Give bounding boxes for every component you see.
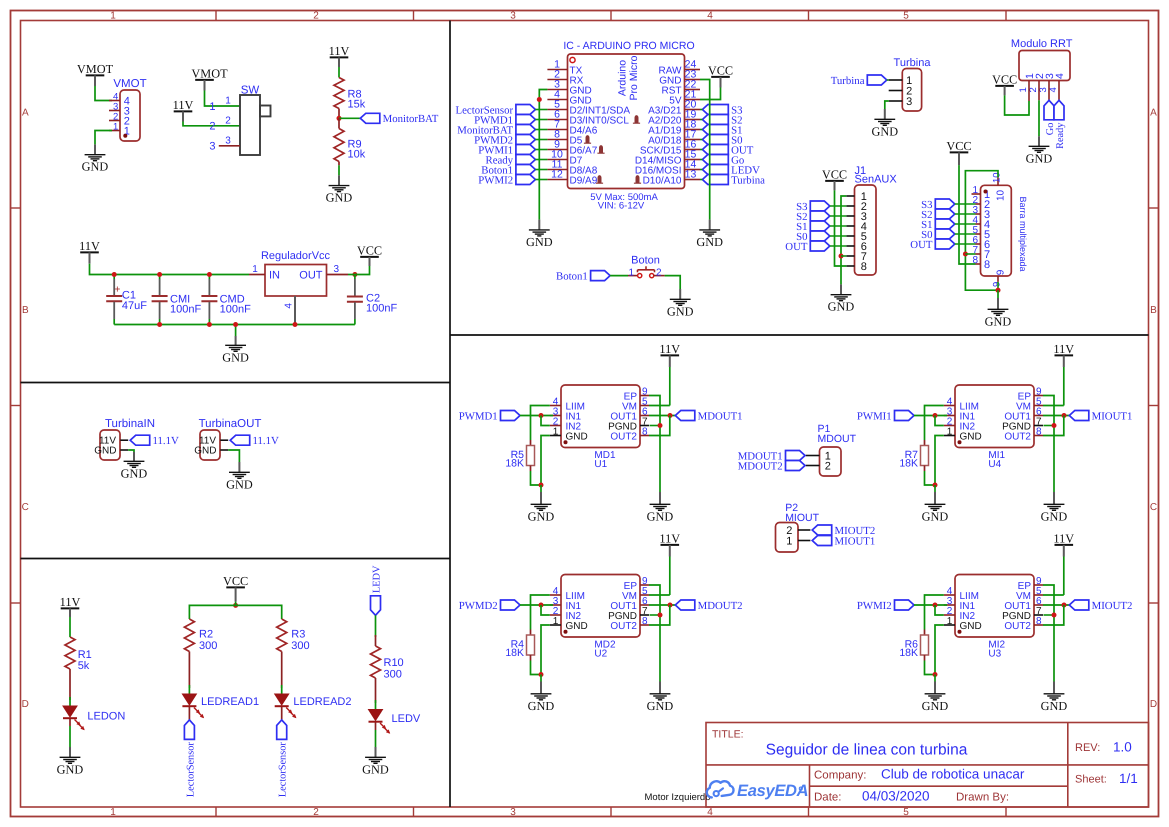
LED LEDON	[63, 706, 77, 717]
pin 4 LIIM of MI2	[944, 594, 955, 596]
pin 11 D8/A8	[547, 169, 567, 171]
resistor R10 300	[375, 615, 377, 637]
svg-text:D9/A9: D9/A9	[570, 175, 598, 186]
wire	[955, 243, 976, 245]
svg-text:1: 1	[113, 122, 118, 133]
svg-text:R10: R10	[384, 657, 404, 669]
svg-text:OUT: OUT	[299, 270, 323, 282]
svg-text:TurbinaOUT: TurbinaOUT	[199, 418, 262, 430]
svg-text:GND: GND	[960, 621, 982, 632]
wire and ground TurbinaIN	[128, 450, 134, 452]
pin 1 GND of MD2	[550, 624, 561, 626]
driver IC MD1 U1	[561, 385, 640, 448]
ground left	[934, 675, 936, 682]
svg-text:LEDREAD1: LEDREAD1	[201, 696, 259, 708]
svg-text:5: 5	[903, 11, 909, 22]
pin 5 VM of MD1	[640, 405, 649, 407]
wire	[700, 179, 702, 181]
wire	[830, 225, 847, 227]
wire LED vcc rail	[235, 602, 237, 606]
svg-text:GND: GND	[326, 191, 353, 205]
svg-text:100nF: 100nF	[170, 304, 201, 316]
pin 6 OUT1 of MI1	[1034, 415, 1043, 417]
svg-text:GND: GND	[528, 509, 555, 523]
node PGND	[658, 613, 663, 618]
svg-text:MDOUT: MDOUT	[818, 433, 857, 445]
net flag S3	[702, 105, 728, 115]
net flag MIOUT2	[1069, 600, 1089, 610]
connector TurbinaOUT	[200, 430, 220, 460]
pin 5 VM of MD2	[640, 594, 649, 596]
node PGND	[658, 423, 663, 428]
net flag S2 at Barra	[935, 209, 955, 219]
pin 15 D14/MISO	[685, 159, 701, 161]
svg-text:VCC: VCC	[946, 139, 971, 153]
net flag PWMI1	[516, 145, 536, 155]
net flag MDOUT2	[675, 600, 695, 610]
wire VM	[1043, 405, 1064, 407]
svg-text:47uF: 47uF	[122, 300, 147, 312]
svg-text:SW: SW	[241, 85, 260, 97]
node PGND	[1052, 423, 1057, 428]
svg-text:11V: 11V	[329, 44, 350, 58]
svg-text:GND: GND	[828, 300, 855, 314]
svg-text:8: 8	[861, 261, 867, 273]
ground	[840, 284, 842, 294]
svg-text:1: 1	[553, 426, 559, 437]
svg-text:VMOT: VMOT	[77, 62, 114, 76]
wire EP-VM-PGND vertical	[649, 585, 660, 682]
node	[157, 272, 162, 277]
pin 5 VM of MI2	[1034, 594, 1043, 596]
net flag S1 at J1	[810, 221, 830, 231]
node	[233, 603, 238, 608]
pin 7 PGND of MI1	[1034, 425, 1043, 427]
svg-text:MonitorBAT: MonitorBAT	[383, 113, 439, 125]
wire	[700, 139, 702, 141]
pin 3 GND	[547, 89, 567, 91]
svg-text:GND: GND	[1041, 509, 1068, 523]
wire	[95, 86, 112, 101]
wire	[700, 129, 702, 131]
svg-text:GND: GND	[528, 699, 555, 713]
wire	[955, 223, 976, 225]
net flag OUT at J1	[810, 241, 830, 251]
pin 19 A2/D20	[685, 119, 701, 121]
title block	[706, 723, 1149, 808]
svg-text:8: 8	[642, 616, 648, 627]
node	[933, 413, 938, 418]
svg-text:SenAUX: SenAUX	[855, 174, 898, 186]
wire VM	[649, 594, 670, 596]
svg-text:5k: 5k	[78, 660, 90, 672]
capacitor C1 47uF	[113, 275, 115, 280]
node OUT1	[668, 413, 673, 418]
svg-text:4: 4	[1054, 73, 1066, 79]
ground left	[540, 485, 542, 492]
svg-text:Sheet:: Sheet:	[1075, 774, 1107, 786]
svg-text:Turbina: Turbina	[731, 174, 765, 186]
resistor R9 10k	[338, 118, 340, 128]
EasyEDA logo	[707, 781, 803, 797]
wire	[348, 274, 355, 276]
svg-text:11.1V: 11.1V	[153, 435, 179, 447]
wire PGND	[1044, 614, 1055, 616]
svg-text:R3: R3	[291, 629, 305, 641]
pin 1 GND of MI1	[944, 435, 955, 437]
capacitor CMI 100nF	[159, 275, 161, 280]
svg-text:18K: 18K	[899, 458, 918, 470]
svg-text:10: 10	[996, 189, 1007, 201]
wire input	[914, 415, 947, 417]
pin 5 D2/INT1/SDA	[547, 109, 567, 111]
ground	[375, 730, 377, 747]
net flag Go	[702, 155, 728, 165]
wire	[830, 235, 847, 237]
net flag MDOUT1 at P1	[786, 451, 806, 461]
wire OUT1	[1043, 604, 1069, 606]
wire	[610, 275, 628, 277]
svg-text:ReguladorVcc: ReguladorVcc	[261, 250, 331, 262]
wire EP-VM-PGND vertical	[1043, 585, 1054, 682]
ground	[338, 165, 340, 175]
IC U ARDUINO PRO MICRO	[568, 54, 685, 189]
wire	[535, 159, 547, 161]
svg-text:2: 2	[313, 11, 319, 22]
svg-text:GND: GND	[566, 431, 588, 442]
svg-text:2: 2	[209, 121, 215, 133]
svg-text:11V: 11V	[1053, 532, 1074, 546]
wire pin23 GND to ground	[700, 80, 710, 220]
wire	[700, 169, 702, 171]
wire LIIM to R7	[925, 406, 944, 441]
wire GND pin down	[541, 625, 550, 675]
resistor R2 300	[184, 619, 194, 652]
wire VCC to pin8	[835, 190, 847, 266]
svg-text:Motor Izquierdo: Motor Izquierdo	[645, 792, 711, 803]
svg-text:Club de robotica unacar: Club de robotica unacar	[881, 767, 1025, 782]
pin 3 net flag Go	[1048, 81, 1050, 101]
svg-text:04/03/2020: 04/03/2020	[862, 789, 930, 804]
wire GND pin down	[541, 436, 550, 486]
svg-text:+: +	[114, 284, 120, 296]
svg-text:2: 2	[825, 460, 831, 472]
pin 1 of TurbinaIN	[120, 439, 128, 441]
svg-text:100nF: 100nF	[220, 304, 251, 316]
wire VCC to pin8	[959, 165, 976, 264]
svg-text:B: B	[22, 305, 29, 316]
svg-text:R2: R2	[199, 629, 213, 641]
svg-text:GND: GND	[696, 235, 723, 249]
wire GND pin down	[935, 436, 944, 486]
node PGND	[1052, 613, 1057, 618]
wire top rail	[90, 264, 250, 275]
wire LIIM to R5	[531, 406, 550, 441]
ground right	[1053, 682, 1055, 694]
svg-text:Modulo RRT: Modulo RRT	[1011, 38, 1073, 50]
wire	[700, 109, 702, 111]
net flag S0 at Barra	[935, 229, 955, 239]
svg-text:A: A	[1150, 108, 1157, 119]
wire	[700, 88, 721, 100]
net flag MDOUT2 at P1	[786, 461, 806, 471]
svg-text:VCC: VCC	[992, 73, 1017, 87]
net flag PWMI2	[895, 600, 915, 610]
analog pin markers	[633, 115, 640, 124]
svg-text:11V: 11V	[79, 239, 100, 253]
svg-text:3: 3	[510, 11, 516, 22]
pin 6 OUT1 of MI2	[1034, 604, 1043, 606]
svg-text:Barra multiplexada: Barra multiplexada	[1018, 196, 1028, 271]
wire OUT1	[1043, 415, 1069, 417]
svg-text:8: 8	[642, 426, 648, 437]
pin 1 GND of MD1	[550, 435, 561, 437]
svg-text:GND: GND	[57, 762, 84, 776]
connector Turbina	[902, 69, 921, 112]
pin 2 IN2 of MI2	[944, 614, 955, 616]
pin 4 GND	[547, 99, 567, 101]
pin 8 OUT2 of MI2	[1034, 624, 1043, 626]
svg-text:LEDON: LEDON	[87, 711, 125, 723]
net flag S3 at Barra	[935, 199, 955, 209]
pin 2 RX	[547, 79, 567, 81]
wire OUT2 up	[1043, 605, 1064, 625]
capacitor CMD 100nF	[208, 275, 210, 280]
wire input	[520, 415, 553, 417]
pin 14 D16/MOSI	[685, 169, 701, 171]
net flag MIOUT1 at P2	[812, 536, 832, 546]
net flag S2	[702, 115, 728, 125]
svg-text:11V: 11V	[173, 98, 194, 112]
node	[539, 672, 544, 677]
svg-text:IN: IN	[269, 270, 280, 282]
svg-text:1: 1	[225, 96, 231, 107]
svg-text:PWMI1: PWMI1	[857, 410, 892, 422]
wire	[183, 122, 240, 126]
pin 9 EP of MD1	[640, 395, 649, 397]
pin 4 LIIM of MD1	[550, 405, 561, 407]
svg-text:OUT2: OUT2	[610, 431, 637, 442]
resistor R6 18K	[924, 630, 926, 636]
svg-text:MIOUT2: MIOUT2	[1092, 600, 1133, 612]
pin 6 OUT1 of MD1	[640, 415, 649, 417]
connector P1 MDOUT	[820, 447, 842, 476]
wire	[535, 109, 547, 111]
wire	[535, 119, 547, 121]
svg-text:VMOT: VMOT	[191, 67, 228, 81]
node	[933, 603, 938, 608]
wire	[665, 276, 681, 289]
pin 7 PGND of MD2	[640, 614, 649, 616]
wire PGND	[650, 425, 661, 427]
svg-text:15k: 15k	[348, 99, 366, 111]
pin 3 IN1 of MD2	[550, 604, 561, 606]
svg-text:GND: GND	[647, 509, 674, 523]
svg-text:2: 2	[225, 115, 231, 126]
svg-text:D: D	[1150, 699, 1157, 710]
net flag MIOUT2 at P2	[812, 525, 832, 535]
svg-text:U4: U4	[988, 459, 1001, 470]
pin 1 IN	[249, 274, 265, 276]
pin 12 D9/A9	[547, 179, 567, 181]
node	[539, 483, 544, 488]
svg-text:GND: GND	[362, 762, 389, 776]
svg-text:8: 8	[1036, 616, 1042, 627]
pin 8 D5	[547, 139, 567, 141]
net flag MDOUT1	[675, 411, 695, 421]
wire	[700, 159, 702, 161]
svg-text:OUT2: OUT2	[1004, 431, 1031, 442]
svg-text:Turbina: Turbina	[894, 57, 932, 69]
svg-text:OUT2: OUT2	[1004, 621, 1031, 632]
ground	[69, 726, 71, 747]
wire to IN2	[935, 605, 944, 615]
svg-text:1: 1	[553, 616, 559, 627]
svg-text:VMOT: VMOT	[113, 78, 146, 90]
ground left of arduino	[538, 220, 540, 230]
pin 3 IN1 of MI1	[944, 415, 955, 417]
svg-text:MIOUT1: MIOUT1	[835, 535, 876, 547]
ground right	[659, 492, 661, 504]
wire LIIM to R4	[531, 595, 550, 630]
svg-text:C: C	[22, 502, 29, 513]
svg-text:4: 4	[707, 11, 713, 22]
pin 17 A0/D18	[685, 139, 701, 141]
pin 4 LIIM of MD2	[550, 594, 561, 596]
node	[112, 272, 117, 277]
net flag S3 at J1	[810, 201, 830, 211]
wire	[535, 169, 547, 171]
net flag PWMI1	[895, 411, 915, 421]
svg-text:3: 3	[225, 135, 231, 146]
svg-text:GND: GND	[960, 431, 982, 442]
resistor R8 15k	[334, 78, 344, 109]
svg-text:GND: GND	[871, 124, 898, 138]
pin 3 OUT	[327, 274, 349, 276]
svg-text:IC - ARDUINO PRO MICRO: IC - ARDUINO PRO MICRO	[563, 40, 694, 52]
net flag MonitorBAT	[360, 113, 380, 123]
pin 9 D6/A7	[547, 149, 567, 151]
net flag S1	[702, 125, 728, 135]
wire pin7	[965, 253, 975, 255]
svg-text:OUT: OUT	[910, 239, 933, 251]
svg-text:GND: GND	[667, 304, 694, 318]
net flag OUT	[702, 145, 728, 155]
wire pin10 to gnd rail	[965, 171, 998, 291]
svg-text:1: 1	[628, 268, 634, 279]
node	[933, 483, 938, 488]
ground	[94, 144, 96, 154]
wire PGND	[1044, 425, 1055, 427]
svg-text:1: 1	[110, 807, 116, 818]
node at pin7	[839, 254, 844, 259]
svg-text:VCC: VCC	[357, 244, 382, 258]
net flag MonitorBAT	[516, 125, 536, 135]
svg-text:VCC: VCC	[822, 168, 847, 182]
svg-text:1: 1	[947, 426, 953, 437]
pin 2 IN2 of MI1	[944, 425, 955, 427]
wire VM	[649, 405, 670, 407]
svg-text:8: 8	[984, 259, 990, 271]
wire pin3 to ground	[885, 101, 889, 109]
net flag OUT at Barra	[935, 239, 955, 249]
pin 20 A3/D21	[685, 109, 701, 111]
svg-text:8: 8	[1036, 426, 1042, 437]
ground right	[1053, 492, 1055, 504]
svg-text:GND: GND	[526, 235, 553, 249]
regulator U RegulatorVcc	[265, 265, 327, 297]
svg-text:C: C	[1150, 502, 1157, 513]
svg-text:LEDV: LEDV	[371, 565, 382, 593]
pin 10 top	[997, 177, 999, 185]
wire input	[914, 604, 947, 606]
svg-text:1.0: 1.0	[1113, 740, 1132, 755]
wire PGND	[650, 614, 661, 616]
svg-text:Turbina: Turbina	[831, 75, 865, 87]
svg-text:GND: GND	[922, 509, 949, 523]
svg-text:300: 300	[384, 669, 402, 681]
net flag PWMD1	[501, 411, 521, 421]
net flag LectorSensor (left)	[184, 720, 194, 740]
wire and ground TurbinaOUT	[228, 450, 239, 462]
svg-text:B: B	[1150, 305, 1157, 316]
wire	[535, 179, 547, 181]
svg-text:11V: 11V	[1053, 342, 1074, 356]
wire pin9 to node	[997, 282, 999, 290]
svg-text:VCC: VCC	[223, 574, 248, 588]
svg-text:Ready: Ready	[1055, 122, 1066, 149]
svg-text:GND: GND	[647, 699, 674, 713]
svg-text:GND: GND	[94, 446, 116, 457]
net flag 11.1V at TurbinaIN	[130, 435, 150, 445]
connector P2 MIOUT	[776, 523, 799, 553]
wire	[205, 91, 241, 107]
svg-text:300: 300	[199, 640, 217, 652]
pin 2 IN2 of MD1	[550, 425, 561, 427]
pin 24 RAW	[685, 69, 701, 71]
pin 21 5V	[685, 99, 701, 101]
ground	[679, 289, 681, 299]
svg-text:11V: 11V	[60, 595, 81, 609]
pin 9 EP of MI1	[1034, 395, 1043, 397]
wire OUT1	[649, 415, 675, 417]
svg-text:GND: GND	[922, 699, 949, 713]
svg-text:1: 1	[252, 264, 258, 275]
pin 22 RST	[685, 89, 701, 91]
ground left	[934, 485, 936, 492]
wire GND pins 3,4 to ground	[539, 90, 547, 220]
svg-text:1: 1	[786, 535, 792, 547]
net flag Turbina	[867, 75, 887, 85]
wire EP-VM-PGND vertical	[1043, 396, 1054, 493]
svg-text:Boton1: Boton1	[556, 271, 588, 283]
svg-text:18K: 18K	[505, 647, 524, 659]
svg-text:Arduino: Arduino	[617, 60, 629, 96]
wire	[338, 67, 340, 78]
svg-text:MDOUT2: MDOUT2	[698, 600, 743, 612]
net flag Boton1	[516, 165, 536, 175]
node	[996, 288, 1001, 293]
node OUT1	[1062, 603, 1067, 608]
svg-text:Date:: Date:	[814, 792, 842, 804]
wire	[830, 215, 847, 217]
svg-text:GND: GND	[222, 350, 249, 364]
svg-text:9: 9	[992, 282, 1003, 287]
wire	[887, 79, 889, 81]
pin 6 OUT1 of MD2	[640, 604, 649, 606]
wire	[700, 149, 702, 151]
svg-text:PWMI2: PWMI2	[478, 174, 513, 186]
